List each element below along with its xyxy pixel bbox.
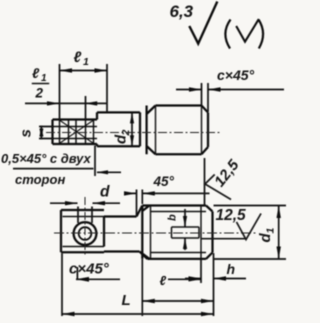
svg-text:b: b xyxy=(167,214,179,221)
svg-text:1: 1 xyxy=(41,73,47,84)
svg-text:c×45°: c×45° xyxy=(69,261,110,278)
svg-text:2: 2 xyxy=(35,86,44,101)
svg-text:ℓ: ℓ xyxy=(32,65,40,81)
svg-text:L: L xyxy=(122,292,131,309)
svg-text:12,5: 12,5 xyxy=(216,207,247,224)
svg-text:d: d xyxy=(100,184,110,201)
svg-text:1: 1 xyxy=(265,228,277,234)
svg-text:s: s xyxy=(18,129,35,137)
svg-text:сторон: сторон xyxy=(15,172,65,187)
svg-text:ℓ: ℓ xyxy=(160,273,167,288)
svg-text:2: 2 xyxy=(120,130,132,137)
svg-text:ℓ: ℓ xyxy=(74,49,82,66)
svg-text:c×45°: c×45° xyxy=(217,67,255,83)
svg-text:0,5×45° с двух: 0,5×45° с двух xyxy=(1,151,92,166)
svg-text:45°: 45° xyxy=(153,174,175,189)
svg-text:h: h xyxy=(227,261,236,277)
svg-text:1: 1 xyxy=(83,56,89,68)
svg-text:6,3: 6,3 xyxy=(170,2,194,21)
